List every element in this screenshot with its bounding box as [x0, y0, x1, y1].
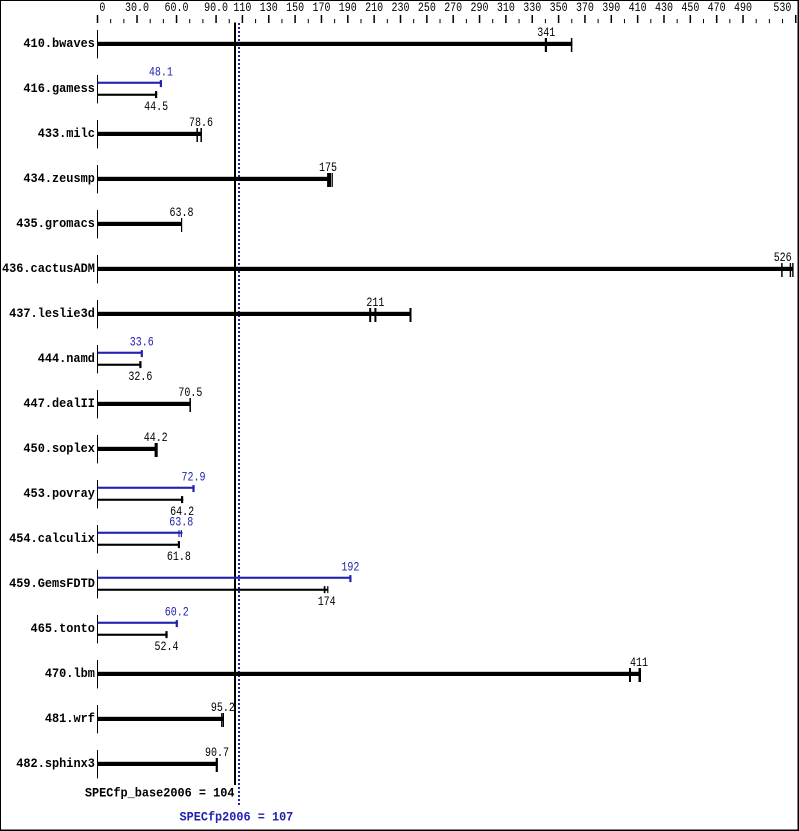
- svg-text:52.4: 52.4: [155, 640, 179, 654]
- svg-text:110: 110: [233, 1, 251, 15]
- svg-text:310: 310: [497, 1, 515, 15]
- svg-text:90.7: 90.7: [205, 746, 229, 760]
- svg-text:444.namd: 444.namd: [38, 351, 95, 366]
- svg-text:174: 174: [318, 595, 336, 609]
- svg-text:482.sphinx3: 482.sphinx3: [16, 756, 95, 771]
- svg-text:0: 0: [99, 1, 105, 15]
- svg-text:490: 490: [734, 1, 752, 15]
- svg-text:SPECfp_base2006 = 104: SPECfp_base2006 = 104: [85, 786, 235, 801]
- svg-text:434.zeusmp: 434.zeusmp: [23, 171, 95, 186]
- svg-text:410.bwaves: 410.bwaves: [23, 36, 95, 51]
- svg-text:270: 270: [444, 1, 462, 15]
- svg-text:210: 210: [365, 1, 383, 15]
- svg-text:436.cactusADM: 436.cactusADM: [2, 261, 95, 276]
- svg-text:32.6: 32.6: [128, 370, 152, 384]
- svg-text:60.0: 60.0: [165, 1, 189, 15]
- svg-text:61.8: 61.8: [167, 550, 191, 564]
- svg-text:192: 192: [341, 561, 359, 575]
- svg-text:416.gamess: 416.gamess: [23, 81, 95, 96]
- svg-text:190: 190: [339, 1, 357, 15]
- svg-text:430: 430: [655, 1, 673, 15]
- svg-text:370: 370: [576, 1, 594, 15]
- svg-text:341: 341: [537, 26, 555, 40]
- svg-text:454.calculix: 454.calculix: [9, 531, 95, 546]
- svg-text:70.5: 70.5: [178, 386, 202, 400]
- svg-text:63.8: 63.8: [169, 516, 193, 530]
- svg-text:48.1: 48.1: [149, 66, 173, 80]
- svg-text:90.0: 90.0: [204, 1, 228, 15]
- svg-text:433.milc: 433.milc: [38, 126, 95, 141]
- svg-text:459.GemsFDTD: 459.GemsFDTD: [9, 576, 95, 591]
- svg-text:44.5: 44.5: [144, 100, 168, 114]
- svg-text:481.wrf: 481.wrf: [45, 711, 95, 726]
- svg-text:175: 175: [319, 161, 337, 175]
- svg-text:78.6: 78.6: [189, 116, 213, 130]
- svg-text:350: 350: [550, 1, 568, 15]
- svg-text:330: 330: [523, 1, 541, 15]
- svg-text:72.9: 72.9: [182, 471, 206, 485]
- svg-text:95.2: 95.2: [211, 701, 235, 715]
- svg-text:211: 211: [366, 296, 384, 310]
- svg-text:250: 250: [418, 1, 436, 15]
- svg-text:290: 290: [471, 1, 489, 15]
- svg-text:63.8: 63.8: [170, 206, 194, 220]
- svg-text:437.leslie3d: 437.leslie3d: [9, 306, 95, 321]
- svg-text:30.0: 30.0: [125, 1, 149, 15]
- svg-text:470: 470: [708, 1, 726, 15]
- svg-text:60.2: 60.2: [165, 606, 189, 620]
- svg-text:470.lbm: 470.lbm: [45, 666, 95, 681]
- svg-text:450: 450: [681, 1, 699, 15]
- svg-text:44.2: 44.2: [144, 431, 168, 445]
- svg-text:530: 530: [773, 1, 791, 15]
- svg-text:447.dealII: 447.dealII: [23, 396, 95, 411]
- svg-text:526: 526: [774, 251, 792, 265]
- svg-text:SPECfp2006 = 107: SPECfp2006 = 107: [180, 809, 294, 824]
- svg-text:453.povray: 453.povray: [23, 486, 95, 501]
- svg-text:450.soplex: 450.soplex: [23, 441, 95, 456]
- svg-text:33.6: 33.6: [130, 336, 154, 350]
- svg-text:465.tonto: 465.tonto: [31, 621, 95, 636]
- svg-text:230: 230: [392, 1, 410, 15]
- svg-text:410: 410: [629, 1, 647, 15]
- svg-text:411: 411: [630, 656, 648, 670]
- svg-text:170: 170: [312, 1, 330, 15]
- svg-text:390: 390: [602, 1, 620, 15]
- svg-text:150: 150: [286, 1, 304, 15]
- svg-text:435.gromacs: 435.gromacs: [16, 216, 95, 231]
- svg-text:130: 130: [260, 1, 278, 15]
